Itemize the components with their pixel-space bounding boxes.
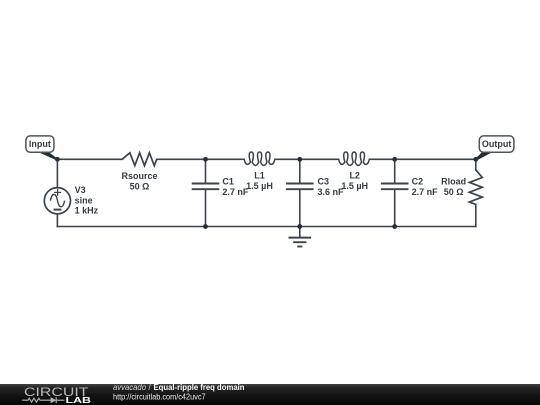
svg-text:Input: Input (29, 139, 51, 149)
svg-text:V3: V3 (75, 185, 86, 195)
svg-text:50 Ω: 50 Ω (130, 181, 150, 191)
svg-text:C1: C1 (222, 177, 234, 187)
svg-text:3.6 nF: 3.6 nF (318, 187, 345, 197)
svg-text:Rsource: Rsource (121, 171, 157, 181)
svg-text:Rload: Rload (441, 177, 466, 187)
svg-text:avvacado: avvacado (113, 383, 147, 392)
svg-text:2.7 nF: 2.7 nF (412, 187, 439, 197)
svg-text:Output: Output (482, 139, 512, 149)
svg-text:http://circuitlab.com/c42uvc7: http://circuitlab.com/c42uvc7 (113, 392, 206, 401)
svg-text:L1: L1 (254, 170, 265, 180)
svg-text:C3: C3 (318, 177, 330, 187)
svg-text:1 kHz: 1 kHz (75, 206, 99, 216)
svg-text:1.5 µH: 1.5 µH (246, 181, 273, 191)
svg-text:2.7 nF: 2.7 nF (222, 187, 249, 197)
svg-text:sine: sine (75, 195, 93, 205)
svg-text:1.5 µH: 1.5 µH (341, 181, 368, 191)
svg-text:LAB: LAB (66, 395, 92, 405)
svg-text:Equal-ripple freq domain: Equal-ripple freq domain (154, 383, 245, 392)
svg-text:C2: C2 (412, 177, 424, 187)
svg-text:L2: L2 (349, 170, 360, 180)
svg-text:50 Ω: 50 Ω (444, 187, 464, 197)
